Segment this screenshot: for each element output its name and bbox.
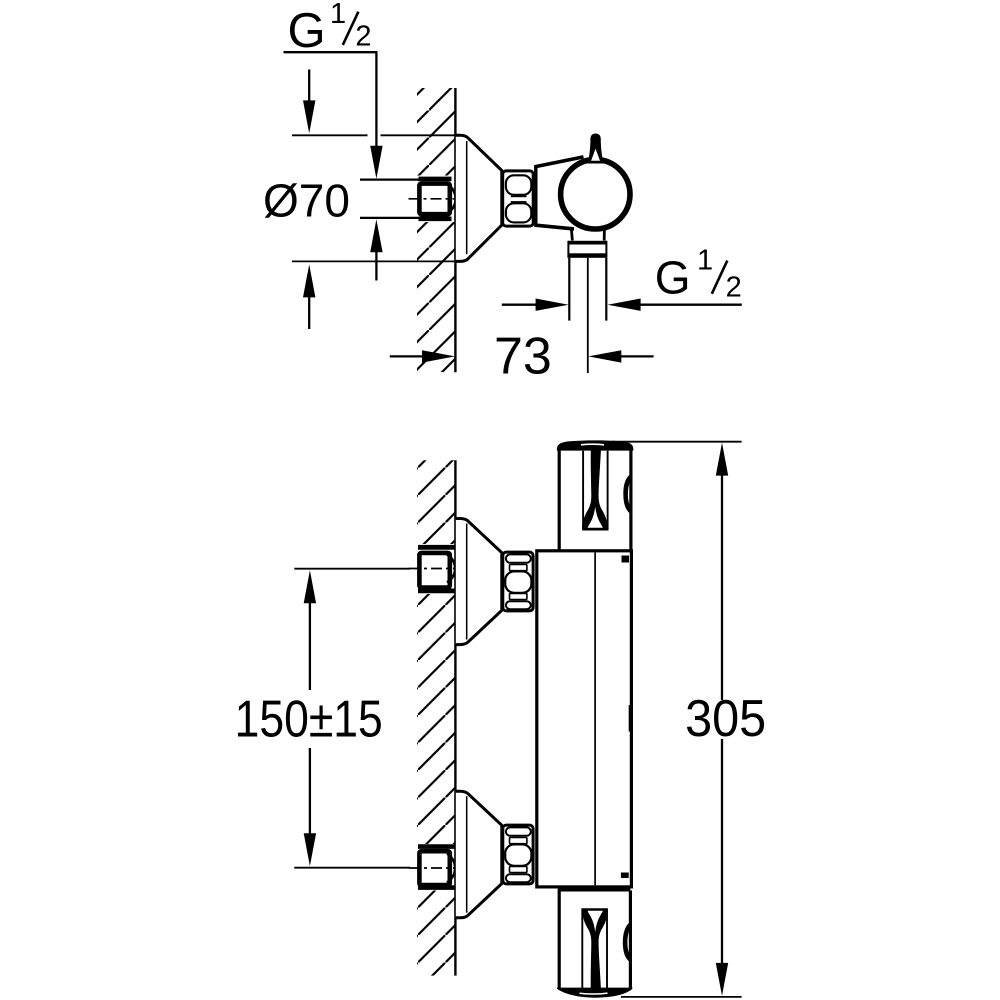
upper bolt bottom washer bar <box>418 589 455 594</box>
leader line under G 1/2 <box>284 51 378 53</box>
mixer body rectangle (front) <box>537 551 632 887</box>
top cap white parting line <box>581 443 604 446</box>
bolt centerline dash-dot (plan) <box>409 198 458 200</box>
wall hatching (front) <box>417 460 455 975</box>
lower bolt bottom washer bar <box>418 885 455 890</box>
svg-text:150±15: 150±15 <box>235 690 383 748</box>
union bolt bottom washer bar (plan) <box>419 217 452 222</box>
union bolt top washer bar (plan) <box>419 177 452 182</box>
lower hex nut (front) <box>503 825 533 884</box>
upper bolt top washer bar <box>418 545 455 550</box>
O70 up arrow <box>303 264 315 297</box>
svg-text:G: G <box>655 252 691 304</box>
bottom handle top line <box>558 888 631 891</box>
right edge button (front) <box>629 705 631 732</box>
svg-text:1: 1 <box>697 245 713 277</box>
wall pocket upper bolt <box>415 544 455 594</box>
wall hatching (plan) <box>417 88 455 372</box>
G1/2 down arrow <box>370 146 382 179</box>
outlet neck (plan) <box>571 230 572 241</box>
upper escutcheon contour line <box>466 524 468 640</box>
bottom handle cap <box>557 988 633 998</box>
body inner contour line <box>594 553 596 886</box>
O70 extension line bottom <box>292 260 464 262</box>
svg-text:2: 2 <box>726 271 742 303</box>
hose nut band (plan) <box>568 241 607 245</box>
upper hex nut (front) <box>503 552 533 611</box>
upper bolt centerline dash-dot <box>409 568 458 570</box>
wall pocket around union bolt (plan) <box>415 176 455 223</box>
G 1/2 dimension (outlet) <box>502 304 539 306</box>
handle lever (plan) <box>588 134 604 164</box>
bottom handle grip funnel <box>582 909 608 988</box>
lower bolt centerline dash-dot <box>409 867 458 869</box>
lower bolt top washer bar <box>418 844 455 849</box>
union bolt dome (plan) <box>448 185 456 214</box>
top handle slot lines <box>582 451 584 530</box>
pipe stub in wall <box>360 179 419 181</box>
top handle side ellipse <box>626 477 632 512</box>
bottom handle left side <box>558 890 561 989</box>
bottom handle right side <box>629 890 632 989</box>
lower bolt dome <box>447 854 455 883</box>
305 dimension line + arrows <box>716 443 728 476</box>
bottom handle slot lines <box>581 910 583 989</box>
G1/2 up arrow <box>370 219 382 252</box>
body bottom-right clip mark <box>621 873 629 879</box>
top funnel white wedge <box>588 507 603 528</box>
wall edge line (plan) <box>454 88 456 372</box>
O70 extension line top <box>292 134 368 136</box>
outlet pipe walls (plan) <box>568 258 570 321</box>
union bolt square (plan) <box>419 184 449 215</box>
outlet pipe centerline <box>587 258 589 373</box>
escutcheon cone (plan) <box>456 135 502 261</box>
O70 down arrow <box>308 70 310 108</box>
svg-text:73: 73 <box>494 328 552 386</box>
top handle left side <box>558 447 561 550</box>
bottom handle side ellipse <box>625 925 631 960</box>
top handle grip funnel <box>582 450 608 529</box>
305 extension lines <box>612 441 742 443</box>
bottom handle slot top line <box>581 908 608 910</box>
wall pocket lower bolt <box>415 844 455 891</box>
150+-15 dimension line + arrows <box>304 570 316 603</box>
top handle cap <box>557 440 633 450</box>
lower escutcheon cone (front) <box>456 791 502 918</box>
upper bolt dome <box>447 555 455 583</box>
bottom funnel white wedge <box>588 911 603 932</box>
wall edge line (front) <box>454 460 456 975</box>
svg-text:G: G <box>288 4 326 58</box>
upper union bolt square <box>419 553 449 588</box>
top handle right side <box>629 447 632 550</box>
top handle slot bottom line <box>582 528 608 530</box>
svg-text:305: 305 <box>685 688 766 747</box>
thermostat knob circle (plan) <box>561 160 630 229</box>
lower escutcheon contour line <box>466 796 468 913</box>
valve body (plan) <box>534 167 537 226</box>
lower union bolt square <box>419 851 449 885</box>
svg-text:2: 2 <box>355 21 371 53</box>
bottom cap white parting line <box>580 992 608 995</box>
upper escutcheon cone (front) <box>456 519 502 645</box>
lever notch (white) <box>591 149 600 161</box>
svg-text:Ø70: Ø70 <box>263 175 350 227</box>
svg-text:1: 1 <box>330 0 346 30</box>
escutcheon rim contour line (plan) <box>466 141 468 254</box>
body top-right clip mark <box>622 556 630 563</box>
73 dimension <box>390 355 426 357</box>
150+-15 extension lines <box>294 568 410 570</box>
hex union nut (plan) <box>503 171 534 226</box>
